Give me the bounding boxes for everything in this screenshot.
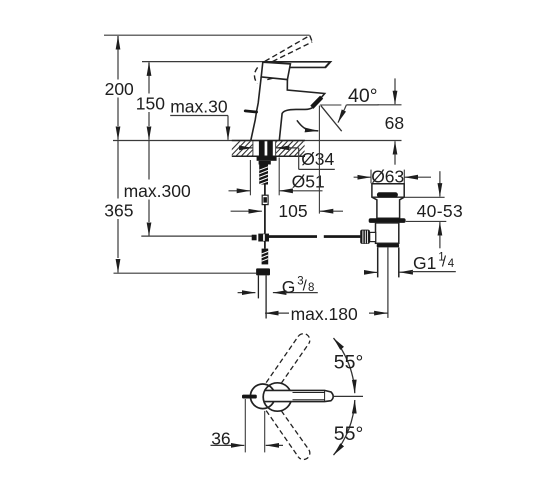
dimension 68 xyxy=(378,104,402,106)
svg-text:max.30: max.30 xyxy=(170,97,228,117)
tailpipe nut xyxy=(377,244,399,248)
dimension Ø63 xyxy=(370,170,372,184)
wire: 200-dim top reference line xyxy=(104,34,310,36)
svg-text:max.300: max.300 xyxy=(124,181,191,201)
faucet lever raised position (dashed) xyxy=(254,36,312,84)
horizontal waste rod xyxy=(269,235,317,238)
dimension 36 xyxy=(244,399,246,452)
waste body xyxy=(376,223,399,243)
rod below junction xyxy=(264,242,266,249)
countertop deck (hatched) xyxy=(232,140,305,142)
waste pull-rod knob on body xyxy=(245,111,256,112)
svg-text:36: 36 xyxy=(211,429,230,449)
locknut under deck xyxy=(257,156,277,160)
svg-text:Ø34: Ø34 xyxy=(301,149,334,169)
pull rod lower xyxy=(264,205,266,234)
svg-text:40°: 40° xyxy=(348,85,378,107)
svg-text:G1: G1 xyxy=(413,253,436,273)
svg-text:G: G xyxy=(282,277,296,297)
wire: max300 bottom line at pull-rod level xyxy=(141,235,252,237)
threaded adapter xyxy=(262,249,269,265)
tailpipe centerline xyxy=(387,247,389,318)
knurled knob xyxy=(360,230,370,244)
faucet body and spout outline xyxy=(251,77,261,140)
svg-text:55°: 55° xyxy=(334,423,364,445)
pull rod upper xyxy=(264,185,266,196)
wire: 365 bottom line xyxy=(114,272,257,274)
aerator mousseur (dark) xyxy=(311,96,323,108)
top view: handle cap circle xyxy=(250,384,275,409)
top view: centerline xyxy=(333,395,363,397)
tailpipe walls xyxy=(377,247,379,277)
svg-text:105: 105 xyxy=(278,201,307,221)
top view: dashed lever rotated up 55deg xyxy=(266,334,310,460)
dimension max.180 xyxy=(265,312,289,314)
wire: 150-dim reference line xyxy=(142,61,265,63)
40 degree spray angle xyxy=(320,104,342,106)
faucet lever handle (rest position) xyxy=(264,62,330,68)
svg-text:55°: 55° xyxy=(334,352,364,374)
svg-text:68: 68 xyxy=(385,113,404,133)
svg-text:365: 365 xyxy=(104,200,133,220)
55deg arcs xyxy=(334,338,355,393)
threaded shank (below) xyxy=(259,165,268,185)
dimension G 3/8 xyxy=(238,292,256,294)
rod coupler xyxy=(262,195,268,204)
dimension G1 1/4 xyxy=(366,271,378,273)
svg-text:max.180: max.180 xyxy=(291,304,358,324)
waste seal washer xyxy=(369,218,406,223)
supply nut xyxy=(256,268,270,275)
wire: vertical dimension line 200/365 xyxy=(117,36,119,258)
svg-text:Ø63: Ø63 xyxy=(371,167,404,187)
faucet cartridge cap xyxy=(261,62,290,79)
rod junction fitting xyxy=(252,235,257,241)
top view: lever boss circle xyxy=(263,383,291,411)
svg-text:4: 4 xyxy=(448,258,455,270)
waste plug (dark) xyxy=(377,192,398,197)
top view: knob xyxy=(242,395,257,399)
dimension 105 xyxy=(318,106,320,214)
dimension Ø34 with leader xyxy=(239,147,253,149)
svg-text:200: 200 xyxy=(105,79,134,99)
supply pipes G3/8 xyxy=(257,275,259,298)
dimension 40-53 xyxy=(405,196,445,198)
svg-text:8: 8 xyxy=(308,282,314,294)
mounting hole edges xyxy=(252,141,254,156)
top view: lever (plan) xyxy=(266,390,334,401)
wire: vertical dimension line 150/max300 xyxy=(148,63,150,223)
threaded shank through deck xyxy=(259,141,265,157)
svg-text:150: 150 xyxy=(136,94,165,114)
dimension Ø51 xyxy=(249,160,251,195)
pop-up waste flange and neck xyxy=(372,184,404,219)
lever port neck xyxy=(370,232,376,241)
svg-text:40-53: 40-53 xyxy=(417,201,464,221)
wire: deck top extension line xyxy=(113,140,402,142)
